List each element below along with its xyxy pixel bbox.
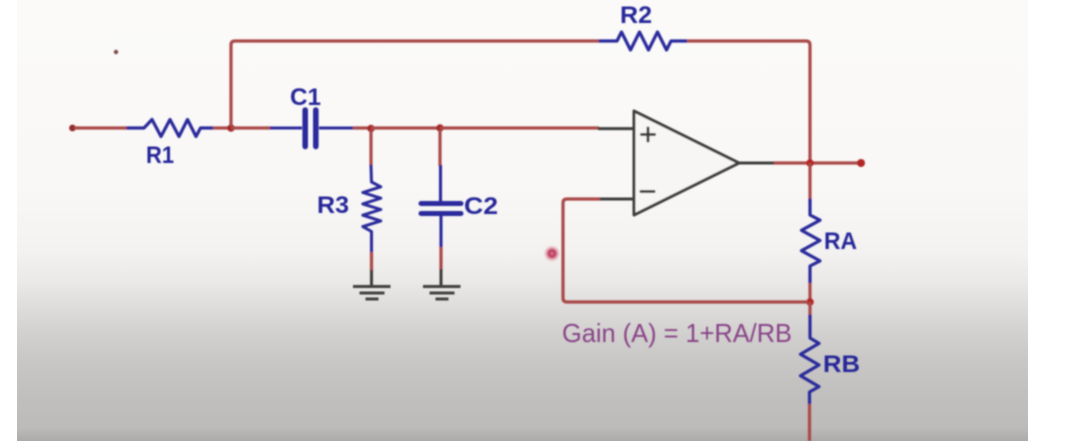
wire node C to op-amp non-inverting input: [440, 126, 599, 129]
wire R3 ground stem: [370, 270, 373, 285]
resistor R2: [600, 32, 687, 50]
wire output stub to terminal: [774, 161, 858, 164]
node C junction dot (C2 tap): [436, 124, 443, 131]
node output junction dot: [806, 159, 814, 167]
wire output node down to RA: [808, 163, 811, 202]
wire C2 to ground (red part): [439, 247, 442, 270]
ground G2: [423, 287, 461, 300]
node D junction dot (RA/RB/feedback): [806, 298, 814, 306]
cursor highlight dot: [543, 245, 561, 263]
wire RB to bottom edge: [808, 404, 811, 441]
svg-text:C1: C1: [290, 84, 321, 111]
svg-text:R2: R2: [620, 2, 652, 29]
wire input to R1: [74, 126, 129, 129]
wire op-amp - input stub: [599, 198, 634, 201]
wire node B to node C: [371, 126, 440, 129]
node input terminal dot: [69, 125, 76, 132]
resistor RB: [801, 316, 820, 404]
node output terminal dot: [857, 159, 865, 167]
wire node C down to C2: [438, 130, 441, 166]
node A junction dot (R1/C1/R2 tap): [227, 124, 234, 131]
op-amp plus sign: [642, 128, 655, 141]
node B junction dot (C1/R3 tap): [367, 125, 374, 132]
wire C1 to node B: [353, 126, 371, 129]
wire node A to C1: [231, 126, 271, 129]
wire op-amp output stub: [739, 162, 774, 165]
svg-text:R3: R3: [317, 192, 349, 219]
capacitor C1: [270, 110, 353, 147]
op-amp minus sign: [641, 190, 654, 193]
wire node A up and across to R2: [231, 41, 600, 126]
wire R3 to ground (red part): [370, 252, 373, 271]
op-amp U1 triangle: [634, 111, 739, 215]
svg-text:Gain (A) = 1+RA/RB: Gain (A) = 1+RA/RB: [562, 318, 792, 348]
wire op-amp + input stub: [598, 127, 634, 130]
ground G1: [353, 287, 391, 300]
capacitor C2: [421, 165, 461, 248]
wire node B down to R3: [369, 130, 372, 166]
stray dot top-left: [114, 50, 118, 54]
svg-text:RB: RB: [823, 351, 860, 378]
wire R1 to node A: [213, 126, 231, 129]
svg-text:RA: RA: [824, 228, 857, 255]
wire C2 ground stem: [440, 269, 443, 285]
svg-text:R1: R1: [146, 142, 174, 169]
wire R2 to output node via right corner: [687, 41, 810, 161]
wire node D to RB: [808, 302, 811, 317]
wire RA to node D: [808, 283, 811, 301]
wire feedback node D to op-amp inverting input: [563, 199, 808, 302]
resistor RA: [802, 200, 821, 283]
resistor R3: [363, 166, 381, 252]
svg-text:C2: C2: [464, 193, 498, 220]
resistor R1: [128, 120, 213, 137]
